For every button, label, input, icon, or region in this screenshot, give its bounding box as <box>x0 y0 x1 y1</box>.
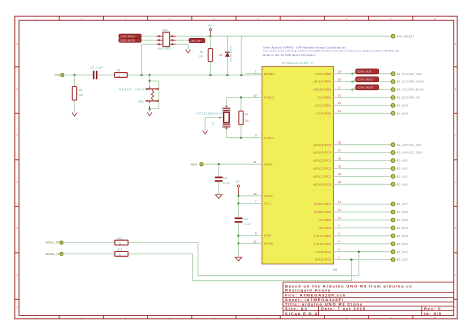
hierarchical label AD_D05 <box>391 218 395 222</box>
IC U5 pin 16 (SS)PB2 <box>318 93 391 99</box>
svg-text:C10: C10 <box>223 177 228 180</box>
svg-text:0.1 uF: 0.1 uF <box>223 182 230 185</box>
junction XTAL2 <box>240 96 242 98</box>
svg-text:0.1uF: 0.1uF <box>97 67 104 70</box>
resistor R6 reset pullup <box>199 36 212 75</box>
IC U5 pin 28 (ADC5)PC5 <box>313 141 391 147</box>
svg-text:AD_D09: AD_D09 <box>397 105 409 108</box>
IC U5 pin 10 XTAL2 <box>246 94 275 100</box>
wire resonator center pin to ground <box>205 118 222 131</box>
wire XTAL1 row <box>226 137 245 139</box>
power symbol +5V top <box>207 25 212 37</box>
svg-text:25: 25 <box>338 164 342 168</box>
svg-text:AD_D02: AD_D02 <box>397 243 409 246</box>
junction switch bottom <box>149 108 151 110</box>
hierarchical label AD_A02 <box>391 167 395 171</box>
svg-text:RESET_SWITCH: RESET_SWITCH <box>119 87 151 91</box>
wire ICSP left row2 <box>141 39 156 41</box>
svg-text:(T1)PD5: (T1)PD5 <box>318 218 332 222</box>
IC U5 pin 25 (ADC2)PC2 <box>313 164 391 170</box>
svg-text:AD_D07: AD_D07 <box>397 203 409 206</box>
resistor R7 parallel crystal <box>239 98 249 138</box>
hierarchical label AD_D07 <box>391 202 395 206</box>
ground below SW1 <box>147 112 152 116</box>
svg-text:XTAL1: XTAL1 <box>264 136 275 140</box>
svg-text:AD_D06: AD_D06 <box>397 211 409 214</box>
svg-text:20: 20 <box>253 192 257 196</box>
resistor RS1 serial <box>115 237 128 245</box>
junction AREF <box>218 163 220 165</box>
svg-text:Id: 5/9: Id: 5/9 <box>424 311 442 316</box>
svg-text:SERIAL_TX: SERIAL_TX <box>46 252 60 256</box>
connector CP1 pins <box>156 35 176 45</box>
IC U5 pin 24 (ADC1)PC1 <box>313 172 391 178</box>
wire XTAL2 row <box>226 97 245 99</box>
IC U5 pin 27 (ADC4)PC4 <box>313 148 391 154</box>
power symbol +5V AVCC <box>235 181 240 196</box>
title block text <box>285 283 442 316</box>
svg-text:XTAL2: XTAL2 <box>264 96 275 100</box>
svg-text:RS1: RS1 <box>118 237 123 240</box>
ground below C10 <box>215 195 222 199</box>
svg-text:SW1: SW1 <box>138 99 145 103</box>
junction +5V <box>209 35 211 37</box>
svg-text:AD_D00: AD_D00 <box>397 259 409 262</box>
svg-text:ICSP_MISO: ICSP_MISO <box>120 34 135 38</box>
IC U5 pin 18 (MISO)PB4 <box>313 77 390 83</box>
svg-text:SERIAL_RX: SERIAL_RX <box>45 241 60 245</box>
svg-text:AREF: AREF <box>191 162 198 166</box>
IC U5 pin 13 (AIN1)PD7 <box>314 200 391 206</box>
IC U5 pin 26 (ADC3)PC3 <box>313 156 391 162</box>
ground below VCC column <box>235 257 242 261</box>
hierarchical label AD_D11/SPI_MOSI <box>391 88 395 92</box>
svg-text:(TXD)PD1: (TXD)PD1 <box>315 250 331 254</box>
svg-text:ICSP_SCK: ICSP_SCK <box>357 70 371 74</box>
svg-text:ATMEGA328P-A: ATMEGA328P-A <box>282 61 313 65</box>
hierarchical label AD_A03 <box>391 159 395 163</box>
hierarchical label AD_D12/SPI_MISO <box>391 80 395 84</box>
svg-text:G: G <box>455 307 457 309</box>
IC U5 pin 19 (SCK)PB5 <box>315 70 391 76</box>
svg-text:AGND: AGND <box>264 241 274 245</box>
svg-text:26: 26 <box>338 156 342 160</box>
global label ICSP_MOSI <box>351 85 378 91</box>
svg-text:AD_A02: AD_A02 <box>397 168 409 171</box>
svg-text:AD_D10/SPI_SS: AD_D10/SPI_SS <box>397 97 421 100</box>
hierarchical label AD_D08 <box>391 111 395 115</box>
hierarchical label AD_A00 <box>391 182 395 186</box>
svg-text:+5V: +5V <box>235 181 240 184</box>
capacitor C10 AREF <box>215 164 231 195</box>
ground below R4 <box>72 113 77 117</box>
global label ICSP_SCK <box>351 69 378 75</box>
svg-text:(RXD)PD0: (RXD)PD0 <box>315 258 332 262</box>
svg-text:U5: U5 <box>333 268 337 272</box>
svg-text:ICSP_MOSI: ICSP_MOSI <box>120 39 135 43</box>
svg-text:+5V: +5V <box>207 25 212 28</box>
capacitor C6 on reset line <box>91 66 104 80</box>
IC U5 ATMEGA328P body <box>262 67 334 265</box>
wire switch bypass <box>150 81 159 109</box>
junction VCC <box>237 202 239 204</box>
svg-text:KiCad E.D.A.: KiCad E.D.A. <box>285 311 320 316</box>
svg-text:11: 11 <box>338 216 341 220</box>
hierarchical label AD_A04/I2C_SDA <box>391 151 395 155</box>
svg-text:AD_D04: AD_D04 <box>397 227 409 230</box>
svg-text:AVCC: AVCC <box>264 194 273 198</box>
hierarchical label AD_D02 <box>391 242 395 246</box>
wire AREF row <box>203 163 245 165</box>
svg-text:(ADC1)PC1: (ADC1)PC1 <box>313 175 332 179</box>
note text Atmel appnote <box>263 47 399 58</box>
svg-text:28: 28 <box>338 141 342 145</box>
svg-text:AD_D08: AD_D08 <box>397 112 409 115</box>
svg-text:AD_D03: AD_D03 <box>397 235 409 238</box>
svg-text:(SS)PB2: (SS)PB2 <box>318 96 332 100</box>
svg-text:(ICP)PB0: (ICP)PB0 <box>316 111 331 115</box>
svg-text:GND: GND <box>264 234 271 238</box>
svg-text:AD_A04/I2C_SDA: AD_A04/I2C_SDA <box>397 152 423 155</box>
IC U5 pin 3 (TXD)PD1 <box>315 248 391 254</box>
wire switch column <box>149 75 151 87</box>
svg-text:AD_A03: AD_A03 <box>397 160 409 163</box>
svg-text:(AIN1)PD7: (AIN1)PD7 <box>314 202 332 206</box>
svg-text:(MOSI)PB3: (MOSI)PB3 <box>313 88 331 92</box>
wire CP1 row3 to ground <box>176 44 188 49</box>
svg-text:ICSP_MOSI: ICSP_MOSI <box>357 86 373 90</box>
IC U5 pin 5 (INT1)PD3 <box>314 232 391 238</box>
global label POWER_5V0 <box>189 38 205 42</box>
svg-text:13: 13 <box>338 200 342 204</box>
junction on reset line at switch column <box>149 74 151 76</box>
svg-text:1M: 1M <box>245 120 248 123</box>
svg-text:12: 12 <box>338 208 342 212</box>
IC U5 pin 4 (INT0)PD2 <box>314 240 391 246</box>
hierarchical label AD_D01 <box>391 250 395 254</box>
svg-text:RESET: RESET <box>264 72 275 76</box>
svg-text:(OC1)PB1: (OC1)PB1 <box>315 104 331 108</box>
svg-text:22: 22 <box>253 239 257 243</box>
wire SERIAL_TX to RS2 <box>63 253 115 255</box>
junction PD0 <box>350 259 352 261</box>
svg-text:C12: C12 <box>244 218 249 221</box>
IC U5 pin 20 AVCC <box>246 192 274 198</box>
hierarchical label AVR_RESET <box>391 34 395 38</box>
IC U5 pin 23 (ADC0)PC0 <box>313 180 391 186</box>
ground below resonator <box>203 131 208 135</box>
svg-text:Date: 7 oct 2015: Date: 7 oct 2015 <box>321 306 366 311</box>
wire CP1 row2 to POWER label <box>176 39 190 41</box>
svg-text:AD_A01: AD_A01 <box>397 176 409 179</box>
junction PD1 <box>358 251 360 253</box>
svg-text:(AIN0)PD6: (AIN0)PD6 <box>314 210 332 214</box>
svg-text:(ADC3)PC3: (ADC3)PC3 <box>313 159 332 163</box>
svg-text:17: 17 <box>338 85 342 89</box>
hierarchical label AD_D03 <box>391 234 395 238</box>
resistor RS2 serial <box>115 249 128 257</box>
switch SW1 <box>146 87 159 109</box>
IC U5 pin 12 (AIN0)PD6 <box>314 208 391 214</box>
svg-text:21: 21 <box>253 160 257 164</box>
diode D2 <box>219 36 232 75</box>
IC U5 pin 9 XTAL1 <box>246 134 275 140</box>
svg-text:AREF: AREF <box>264 162 273 166</box>
svg-text:DTR: DTR <box>55 73 60 77</box>
wire +5V down to VCC pins <box>238 196 240 218</box>
junction switch top <box>149 80 151 82</box>
IC U5 pin 15 (OC1)PB1 <box>315 101 391 107</box>
svg-text:27: 27 <box>338 148 342 152</box>
junction on reset line at R4 <box>73 74 75 76</box>
hierarchical label AD_D13/SPI_SCK <box>391 72 395 76</box>
wire AVR_RESET column down to reset line <box>240 36 242 75</box>
junction AGND pin <box>237 242 239 244</box>
IC U5 pin 2 (RXD)PD0 <box>315 255 391 261</box>
svg-text:0.1 uF: 0.1 uF <box>244 223 251 226</box>
svg-text:AD_A00: AD_A00 <box>397 183 409 186</box>
svg-text:RS2: RS2 <box>118 249 123 252</box>
IC U5 pin 14 (ICP)PB0 <box>316 109 391 115</box>
connector CP1 body <box>158 28 172 50</box>
svg-text:Refer to this for PCB layout i: Refer to this for PCB layout information <box>263 54 316 57</box>
svg-text:(T0)PD4: (T0)PD4 <box>318 226 332 230</box>
svg-text:16: 16 <box>338 93 342 97</box>
svg-text:(SCK)PB5: (SCK)PB5 <box>315 72 331 76</box>
hierarchical label AD_D00 <box>391 258 395 262</box>
junction on reset line at ICSP column <box>141 74 143 76</box>
wire ICSP left row1 <box>141 35 156 37</box>
svg-text:18: 18 <box>338 77 342 81</box>
svg-text:(ADC4)PC4: (ADC4)PC4 <box>313 151 332 155</box>
svg-text:AVR_RESET: AVR_RESET <box>397 35 415 38</box>
svg-text:+5V_CP: +5V_CP <box>190 39 200 43</box>
hierarchical label AD_D10/SPI_SS <box>391 96 395 100</box>
svg-text:C6: C6 <box>91 66 95 70</box>
svg-text:24: 24 <box>338 172 342 176</box>
title block <box>283 282 454 315</box>
svg-text:G: G <box>16 307 18 309</box>
junction GND pin <box>237 235 239 237</box>
wire SERIAL_RX to RS1 <box>63 242 115 244</box>
IC U5 pin 7 VCC <box>246 199 272 205</box>
junction XTAL1 <box>240 137 242 139</box>
svg-text:(INT1)PD3: (INT1)PD3 <box>314 234 331 238</box>
IC U5 pin 8 GND <box>246 232 272 238</box>
svg-text:AD_D13/SPI_SCK: AD_D13/SPI_SCK <box>397 73 423 76</box>
resistor R5 on reset line <box>115 70 128 78</box>
svg-text:CSTCE16M0V53-R0: CSTCE16M0V53-R0 <box>196 113 224 115</box>
resistor R4 pull-down <box>72 75 83 113</box>
IC U5 pin 11 (T1)PD5 <box>318 216 391 222</box>
svg-text:CP1: CP1 <box>162 28 168 32</box>
IC U5 pin 6 (T0)PD4 <box>318 224 391 230</box>
wire RS2 to PD0 RXD <box>128 254 351 281</box>
svg-text:(INT0)PD2: (INT0)PD2 <box>314 242 331 246</box>
wire +5V to reset net column <box>210 35 390 37</box>
svg-text:AD_D12/SPI_MISO: AD_D12/SPI_MISO <box>397 81 425 84</box>
hierarchical label AD_A01 <box>391 175 395 179</box>
hierarchical label AD_D09 <box>391 104 395 108</box>
hierarchical label AD_D04 <box>391 226 395 230</box>
wire CP1 row1 to +5V junction <box>176 35 210 37</box>
IC U5 pin 22 AGND <box>246 239 274 245</box>
svg-text:10: 10 <box>253 94 257 98</box>
global label ICSP_MISO <box>351 77 378 83</box>
hierarchical label AD_D06 <box>391 210 395 214</box>
svg-text:VCC: VCC <box>264 202 271 206</box>
svg-text:(ADC2)PC2: (ADC2)PC2 <box>313 167 332 171</box>
wire ICSP left row3 down to reset line <box>142 44 157 75</box>
junction on reset line at diode D2 <box>226 74 228 76</box>
svg-text:AD_D11/SPI_MOSI: AD_D11/SPI_MOSI <box>397 89 425 92</box>
svg-text:23: 23 <box>338 180 342 184</box>
junction on reset line at AVR_RESET column <box>240 74 242 76</box>
global label ICSP_MOSI <box>119 38 141 42</box>
svg-text:14: 14 <box>338 109 342 113</box>
ground below CP1 <box>186 50 191 54</box>
svg-text:AD_D01: AD_D01 <box>397 251 409 254</box>
svg-text:http://www.atmel.com/images/At: http://www.atmel.com/images/Atmel-2521-A… <box>263 49 399 52</box>
svg-text:Mini_USB2.0: Mini_USB2.0 <box>158 49 172 51</box>
svg-text:(ADC0)PC0: (ADC0)PC0 <box>313 182 332 186</box>
wire reset line DTR to IC pin 1 <box>64 74 93 76</box>
svg-text:CD1206-S01575: CD1206-S01575 <box>231 45 233 62</box>
svg-text:(MISO)PB4: (MISO)PB4 <box>313 80 331 84</box>
wire RS1 to PD1 TXD <box>128 243 359 276</box>
svg-text:AD_A05/I2C_SCL: AD_A05/I2C_SCL <box>397 144 423 147</box>
svg-text:15: 15 <box>338 101 342 105</box>
IC U5 pin 17 (MOSI)PB3 <box>313 85 390 91</box>
global label ICSP_MISO <box>119 34 141 38</box>
svg-text:AD_D05: AD_D05 <box>397 219 409 222</box>
svg-text:(ADC5)PC5: (ADC5)PC5 <box>313 143 332 147</box>
svg-text:19: 19 <box>338 70 342 74</box>
resonator Y1 <box>196 98 230 138</box>
hierarchical label AD_A05/I2C_SCL <box>391 143 395 147</box>
capacitor C12 decoupling <box>235 218 251 258</box>
svg-text:Atmel Appnote AVR042 - AVR Har: Atmel Appnote AVR042 - AVR Hardware Desi… <box>263 47 346 50</box>
junction on reset line at pullup resistor <box>209 74 211 76</box>
IC U5 pin 21 AREF <box>246 160 274 166</box>
IC U5 pin 1 RESET <box>246 70 276 76</box>
svg-text:ICSP_MISO: ICSP_MISO <box>357 78 373 82</box>
junction AVCC <box>237 195 239 197</box>
